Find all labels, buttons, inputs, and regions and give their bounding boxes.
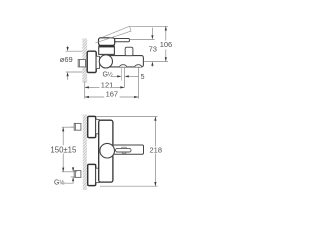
svg-text:½: ½ xyxy=(59,178,65,186)
svg-text:ø69: ø69 xyxy=(60,55,73,64)
svg-text:218: 218 xyxy=(150,145,163,154)
svg-text:5: 5 xyxy=(141,74,145,81)
svg-text:73: 73 xyxy=(149,44,157,53)
svg-text:121: 121 xyxy=(101,80,114,89)
svg-text:150±15: 150±15 xyxy=(50,145,77,154)
svg-text:½: ½ xyxy=(108,72,113,79)
svg-text:106: 106 xyxy=(160,40,173,49)
svg-text:167: 167 xyxy=(106,89,119,98)
